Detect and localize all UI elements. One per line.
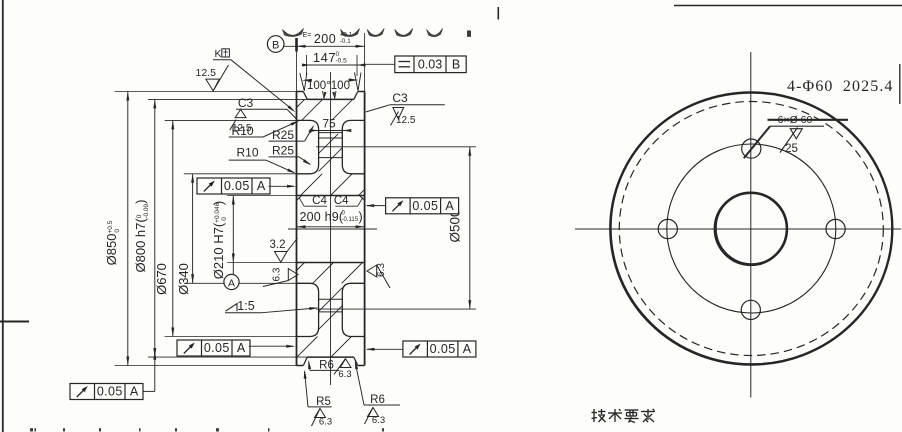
dashed circle D800 (619, 102, 883, 356)
datum B circle (267, 36, 284, 53)
svg-text:3.2: 3.2 (270, 239, 286, 251)
svg-text:147: 147 (313, 50, 336, 65)
svg-text:0.05: 0.05 (224, 179, 250, 193)
right sheet border fragment (899, 64, 901, 104)
bottom tread surface (307, 356, 354, 358)
groove angle extension V left (300, 73, 305, 91)
svg-text:A: A (237, 341, 246, 355)
small tick mark I (497, 7, 499, 20)
svg-text:-0.5: -0.5 (336, 58, 348, 65)
top lip inner walls (100 deg) (303, 92, 307, 100)
bolt circle D500 (667, 144, 836, 313)
groove angle dim arrows (302, 79, 312, 82)
svg-text:A: A (463, 342, 472, 356)
extension lines left side (115, 91, 297, 93)
front view horizontal centerline (575, 228, 901, 230)
dim D500 vertical line (469, 147, 471, 309)
cut-off text line at bottom edge (30, 428, 33, 431)
bottom lip edges (297, 365, 304, 367)
147 extension lines (306, 55, 308, 76)
roughness 6.3 below R6 (368, 408, 379, 417)
svg-text:200 h9(: 200 h9( (300, 210, 344, 224)
svg-text:12.5: 12.5 (396, 115, 416, 126)
groove angle extension V right (355, 73, 359, 91)
svg-text:6.3: 6.3 (272, 267, 283, 281)
rim inner surface + fillets (lower windows) (297, 283, 319, 336)
svg-text:25: 25 (785, 143, 798, 155)
dim D340 vertical line (192, 174, 194, 283)
svg-text:C4: C4 (334, 195, 349, 207)
svg-text:100°100: 100°100 (307, 80, 350, 92)
svg-text:R25: R25 (272, 144, 294, 158)
runout frame 0.05 A (bottom left) (70, 384, 143, 400)
svg-text:K: K (215, 48, 222, 60)
text: technical requirements (CJK drawn) (592, 409, 656, 423)
top tread surface (D800) (307, 98, 354, 100)
outer circle D850 (rough cast edge) (610, 93, 892, 365)
svg-text:6.3: 6.3 (338, 369, 351, 380)
roughness 6.3 below R5 (315, 409, 326, 418)
dim D670 vertical line (172, 120, 174, 336)
svg-text:R5: R5 (316, 396, 331, 408)
svg-text:1:5: 1:5 (237, 299, 254, 313)
svg-text:0.03: 0.03 (418, 58, 442, 72)
datum B tick (295, 38, 298, 52)
angle leader arrows (324, 92, 327, 99)
roughness 6.3 below tread (334, 359, 345, 375)
roughness triangle under C3 left (235, 109, 246, 117)
section hatching 45deg (297, 99, 305, 107)
wheel rim left face (296, 92, 298, 366)
wheel axis centerline (288, 228, 377, 230)
runout frame 0.05 A (bottom right) (403, 341, 476, 357)
leader slash through top hole (744, 126, 770, 158)
svg-text:A: A (130, 385, 139, 399)
dim D210 vertical line (232, 196, 234, 263)
bolt hole top (742, 139, 761, 158)
sheet left border line (2, 0, 4, 432)
svg-text:0.05: 0.05 (430, 342, 456, 356)
svg-text:A: A (445, 199, 454, 213)
svg-text:75: 75 (322, 117, 336, 131)
svg-text:R25: R25 (272, 128, 294, 142)
svg-text:B: B (452, 58, 460, 72)
svg-text:0.05: 0.05 (97, 385, 123, 399)
dim D800 vertical line (154, 99, 156, 357)
section axial centerline (330, 72, 332, 385)
svg-text:Ø670: Ø670 (154, 263, 169, 295)
svg-text:): ) (359, 210, 363, 224)
svg-text:0.05: 0.05 (204, 341, 230, 355)
bolt hole bottom (741, 300, 760, 319)
dim 147 line with arrows (302, 64, 365, 66)
svg-text:A: A (257, 179, 266, 193)
svg-text:R6: R6 (370, 394, 385, 406)
rim inner surface + R25 fillets + web faces (upper windows) (297, 120, 319, 173)
bore top edge (D210) (297, 195, 365, 197)
runout frame 0.05 A (mid left lower) (177, 340, 250, 356)
center bore D210 (rough) (715, 193, 787, 265)
parallelism frame 0.03 B (395, 56, 466, 73)
left margin tick (0, 321, 29, 323)
svg-text:C3: C3 (238, 96, 254, 110)
roughness 12.5 under C3 right (393, 108, 404, 119)
runout frame 0.05 A (mid right) (386, 198, 459, 214)
datum A stub and circle (232, 263, 234, 275)
dim D850 vertical line (127, 92, 129, 366)
bore bottom edge (297, 262, 365, 264)
wheel rim right face (364, 92, 366, 366)
roughness 6.3 left hub face (288, 269, 298, 281)
svg-text:6.3: 6.3 (372, 415, 385, 426)
svg-text:Ø500: Ø500 (448, 209, 463, 242)
dim line 200 h9 (297, 226, 365, 228)
bolt hole right (826, 219, 845, 238)
svg-text:R10: R10 (231, 124, 253, 138)
svg-text:Ø340: Ø340 (176, 263, 191, 295)
svg-text:-0.115: -0.115 (342, 217, 359, 223)
svg-text:C3: C3 (392, 91, 408, 105)
svg-text:-0.1: -0.1 (340, 38, 352, 45)
top border line (right half) (674, 5, 902, 7)
svg-text:C4: C4 (312, 195, 327, 207)
svg-text:A: A (228, 278, 235, 290)
top lip edges (D850) (297, 91, 304, 93)
svg-text:4-Φ60 2025.4: 4-Φ60 2025.4 (787, 78, 894, 95)
web taper lines (319, 132, 343, 134)
svg-text:12.5: 12.5 (196, 67, 217, 79)
bottom lip inner walls (303, 357, 307, 365)
svg-text:6.3: 6.3 (376, 263, 387, 277)
extension lines D500 (316, 146, 476, 148)
svg-text:E=: E= (303, 32, 312, 39)
svg-text:200: 200 (314, 32, 336, 46)
extension columns up from rim faces (296, 38, 298, 92)
bore C4 chamfers top (297, 196, 302, 201)
svg-text:B: B (272, 40, 279, 52)
roughness 25 (790, 129, 802, 139)
dim 200 line with arrows (284, 45, 365, 47)
cut-off text crescents along top (283, 29, 304, 37)
K leader line with arrow (213, 59, 231, 61)
svg-text:R6: R6 (319, 360, 334, 372)
runout frame 0.05 A (upper left) (197, 178, 270, 194)
tiny square mark (467, 31, 471, 37)
leader from frame to 147 dim (363, 63, 395, 65)
roughness 6.3 right rim face (367, 265, 377, 277)
svg-text:R10: R10 (236, 146, 258, 160)
svg-text:6.3: 6.3 (319, 417, 332, 428)
front view vertical centerline (750, 52, 752, 398)
svg-text:0.05: 0.05 (412, 199, 438, 213)
bolt hole left (658, 219, 677, 238)
